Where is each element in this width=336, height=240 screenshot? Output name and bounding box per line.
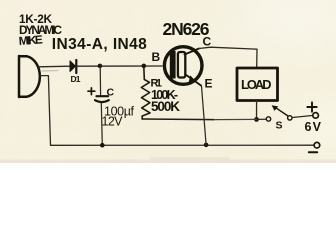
battery plus terminal (313, 113, 319, 119)
switch S right contact (288, 116, 292, 120)
switch S arm (276, 108, 289, 116)
svg-text:MIKE: MIKE (18, 32, 43, 48)
transistor emitter line (186, 75, 202, 86)
capacitor C top plate (97, 95, 109, 97)
wire diode to transistor base (77, 65, 162, 67)
plus sign battery (307, 102, 316, 111)
wire junction to switch contact (258, 118, 266, 120)
capacitor C stem lower (101, 103, 102, 145)
wire emitter to bottom rail (202, 86, 207, 145)
wire ghost below mike wire (42, 70, 58, 72)
junction node cap/bottom rail (100, 143, 105, 148)
svg-text:B: B (152, 50, 161, 64)
svg-text:C: C (203, 35, 212, 49)
wire load bottom to switch rail (256, 101, 258, 120)
plus sign at capacitor (88, 88, 95, 95)
resistor R1 (141, 66, 150, 119)
capacitor C stem upper (99, 66, 101, 96)
svg-text:IN34-A, IN48: IN34-A, IN48 (52, 36, 147, 53)
battery minus terminal (314, 142, 320, 148)
svg-text:S: S (276, 120, 283, 132)
transistor collector line (185, 49, 200, 55)
junction node R1/top wire (142, 64, 147, 69)
wire R1 to switch rail (142, 118, 214, 121)
wire mike to diode (39, 65, 70, 68)
transistor base bar outline (178, 52, 185, 78)
wire collector to load (199, 47, 257, 67)
load box (237, 68, 278, 101)
transistor 2N626 circle (164, 47, 202, 85)
wire switch rail faded segment (214, 118, 257, 120)
svg-text:C: C (107, 87, 115, 99)
switch S left contact (266, 117, 270, 121)
paper speckle (0, 0, 336, 163)
svg-text:E: E (205, 77, 213, 91)
diode D1 (70, 61, 76, 72)
bottom edge smudge 2 (150, 157, 230, 160)
junction node emitter/bottom rail (204, 143, 209, 148)
bottom rail wire (51, 144, 314, 146)
svg-text:LOAD: LOAD (241, 77, 272, 92)
svg-text:12V: 12V (102, 115, 124, 129)
wire mike to bottom rail (40, 76, 51, 146)
wire switch to battery plus (293, 116, 313, 118)
transistor emitter arrowhead (189, 75, 197, 82)
capacitor C bottom plate (95, 100, 109, 102)
svg-text:6V: 6V (305, 120, 322, 134)
bottom edge smudge (0, 160, 336, 164)
svg-text:500K: 500K (151, 99, 180, 114)
paper mottling (0, 0, 336, 163)
junction node cap/top wire (98, 64, 103, 69)
transistor base bar filled (170, 51, 176, 79)
junction node load/switch rail (254, 117, 259, 122)
svg-text:D1: D1 (71, 74, 81, 84)
minus sign battery (309, 151, 317, 153)
switch S arm arrowhead (272, 105, 279, 111)
microphone (19, 56, 40, 97)
